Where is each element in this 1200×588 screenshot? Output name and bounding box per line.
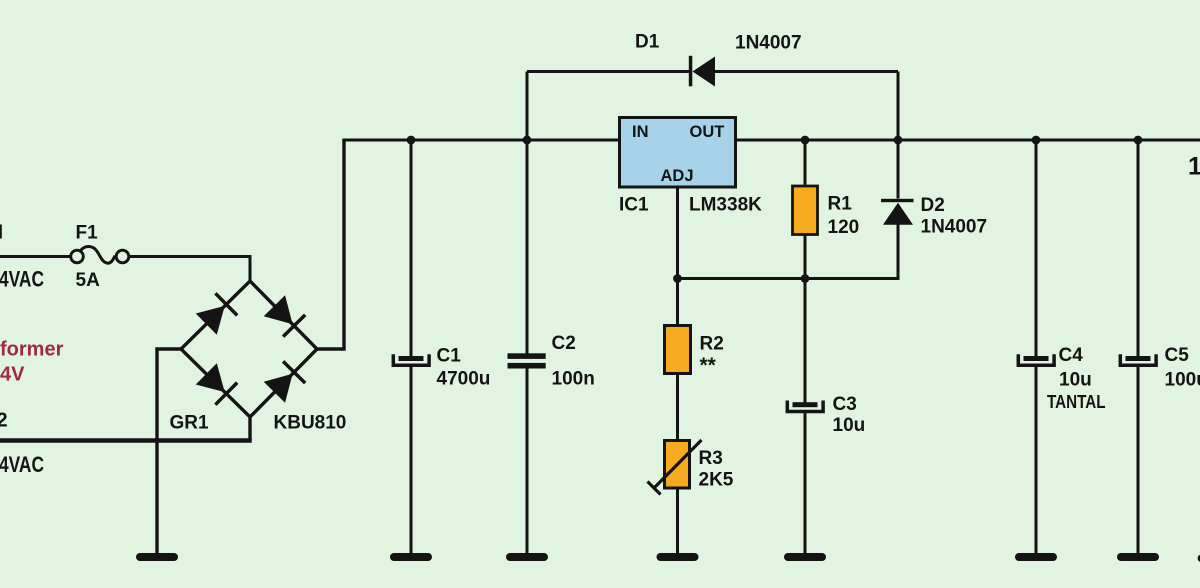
wire: bridge minus arm to ground <box>157 347 181 553</box>
svg-text:GR1: GR1 <box>170 413 210 434</box>
trimmer R3 <box>676 373 679 441</box>
capacitor C2 <box>526 140 529 553</box>
ground (C2) <box>506 553 548 561</box>
svg-text:C5: C5 <box>1165 345 1190 366</box>
svg-text:IN: IN <box>632 123 649 141</box>
bridge diode top-right <box>263 295 306 338</box>
svg-text:1: 1 <box>1188 153 1200 181</box>
svg-text:1N4007: 1N4007 <box>735 33 802 54</box>
svg-text:D1: D1 <box>635 32 660 53</box>
svg-text:C4: C4 <box>1059 345 1084 366</box>
node dot ADJ/R2 <box>673 274 682 283</box>
node dot C1/rail <box>407 136 416 145</box>
terminal label fragment 1 (left edge, cut) <box>0 225 2 239</box>
resistor R2 <box>676 279 679 327</box>
node dot R1/C3 <box>801 274 810 283</box>
node dot R1/rail <box>801 136 810 145</box>
ground (C4) <box>1015 553 1057 561</box>
bridge diode bottom-right <box>263 360 306 403</box>
capacitor C3 (polarized) <box>804 279 807 554</box>
diode D2 <box>897 140 900 279</box>
svg-text:**: ** <box>700 354 717 377</box>
svg-text:IC1: IC1 <box>619 195 649 216</box>
svg-text:TANTAL: TANTAL <box>1047 392 1106 412</box>
ground (C1) <box>390 553 432 561</box>
wire: bridge bottom vertex to lower AC <box>248 417 251 441</box>
fuse F1 <box>71 247 129 264</box>
bridge diode top-left <box>195 292 238 335</box>
capacitor C5 (polarized) <box>1137 140 1140 553</box>
svg-text:1N4007: 1N4007 <box>921 217 988 238</box>
wire: bridge plus arm riser to rail <box>317 140 344 351</box>
svg-text:100u: 100u <box>1165 370 1200 391</box>
resistor R1 <box>804 140 807 279</box>
bridge rectifier GR1 diamond frame <box>181 281 317 417</box>
wire: main positive rail <box>342 139 1200 142</box>
svg-text:2K5: 2K5 <box>699 470 734 491</box>
ground (bridge minus) <box>136 553 178 561</box>
svg-text:C2: C2 <box>552 333 576 354</box>
capacitor C4 (polarized tantalum) <box>1035 140 1038 553</box>
svg-text:R3: R3 <box>699 448 723 469</box>
svg-text:KBU810: KBU810 <box>274 413 347 434</box>
wire: upper AC line from left edge to fuse <box>0 255 71 258</box>
wire: ADJ pin down to adj node <box>676 187 679 279</box>
node dot C4/rail <box>1032 136 1041 145</box>
ground (C3) <box>784 553 826 561</box>
svg-text:4VAC: 4VAC <box>0 267 44 292</box>
wire: D1 branch over regulator <box>527 72 898 199</box>
node dot C2/D1/rail <box>523 136 532 145</box>
svg-text:R2: R2 <box>700 334 724 355</box>
node dot C5/rail <box>1134 136 1143 145</box>
svg-text:OUT: OUT <box>690 123 725 141</box>
svg-text:ADJ: ADJ <box>661 167 694 185</box>
node dot D2/rail <box>894 136 903 145</box>
svg-text:former: former <box>0 339 64 361</box>
svg-text:120: 120 <box>828 217 860 238</box>
svg-text:10u: 10u <box>833 415 866 436</box>
svg-text:D2: D2 <box>921 195 945 216</box>
svg-text:5A: 5A <box>76 270 101 291</box>
wire: fuse to bridge top vertex <box>128 255 250 283</box>
svg-text:R1: R1 <box>828 194 853 215</box>
svg-text:LM338K: LM338K <box>689 195 762 216</box>
svg-text:2: 2 <box>0 410 8 432</box>
ground (C5) <box>1117 553 1159 561</box>
svg-text:10u: 10u <box>1059 370 1092 391</box>
svg-text:4700u: 4700u <box>437 369 491 390</box>
svg-text:C3: C3 <box>833 394 857 415</box>
diode D1 <box>689 56 693 87</box>
svg-text:4V: 4V <box>0 364 25 386</box>
ground (cut off at right edge) <box>1198 555 1200 563</box>
svg-text:C1: C1 <box>437 346 462 367</box>
ground (R3) <box>657 553 699 561</box>
svg-text:100n: 100n <box>552 369 595 390</box>
bridge diode bottom-left <box>195 363 238 406</box>
wire: adj node horizontal <box>678 224 899 280</box>
svg-text:4VAC: 4VAC <box>0 452 44 477</box>
wire: lower AC line from left edge to bridge <box>0 438 252 443</box>
svg-text:F1: F1 <box>76 223 99 244</box>
op-amp/regulator IC1 box <box>620 118 736 188</box>
capacitor C1 (polarized) <box>410 140 413 553</box>
